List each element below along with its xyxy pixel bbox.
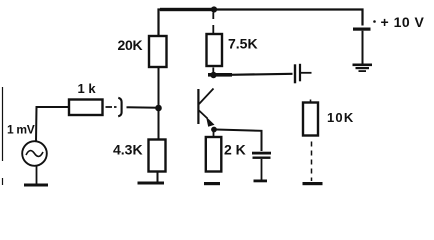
wire left margin scan artifact bbox=[2, 87, 4, 185]
wire 7.5K bottom dash bbox=[212, 68, 214, 73]
wire emitter to bypass cap bbox=[216, 130, 262, 152]
battery plate +10V bbox=[353, 28, 371, 31]
svg-text:+ 10 V: + 10 V bbox=[381, 14, 425, 30]
ground source bbox=[24, 184, 48, 187]
wire rail thick segment bbox=[160, 8, 215, 11]
wire battery to ground bbox=[362, 31, 364, 64]
wire collector output line bbox=[230, 74, 293, 75]
wire top supply rail bbox=[159, 10, 363, 37]
wire emitter to 2K bbox=[213, 132, 215, 138]
capacitor C1 input coupling plate bbox=[118, 98, 121, 117]
wire dashes after 1k bbox=[106, 106, 117, 108]
svg-text:20K: 20K bbox=[118, 37, 143, 53]
svg-text:7.5K: 7.5K bbox=[228, 36, 258, 52]
wire 20K bottom to node bbox=[158, 68, 160, 140]
wire source bottom bbox=[36, 165, 38, 184]
transistor Q1 base bar bbox=[197, 89, 199, 124]
node collector junction blob bbox=[210, 72, 216, 78]
resistor R2 7.5K bbox=[207, 34, 223, 66]
node base divider junction bbox=[155, 105, 162, 112]
wire 10K bottom dashed bbox=[311, 142, 313, 182]
ground 2K bar bbox=[204, 182, 220, 185]
resistor R5 10K bbox=[303, 103, 318, 136]
wire output stub bbox=[301, 72, 312, 74]
ground 10K bbox=[303, 182, 323, 185]
resistor R1 20K bbox=[149, 36, 167, 67]
source V1 1mV bbox=[22, 141, 47, 166]
capacitor C2 output coupling bbox=[294, 64, 296, 83]
transistor Q1 emitter diagonal with arrow bbox=[199, 111, 208, 119]
svg-text:2 K: 2 K bbox=[224, 142, 246, 158]
ground cap tick bbox=[254, 180, 268, 183]
wire source top bbox=[36, 107, 69, 142]
resistor R3 4.3K bbox=[149, 140, 166, 172]
ground supply bbox=[353, 64, 373, 67]
resistor R4 1k bbox=[69, 100, 103, 116]
svg-text:1 mV: 1 mV bbox=[7, 123, 35, 137]
capacitor C3 emitter bypass bbox=[252, 152, 271, 155]
svg-text:1 k: 1 k bbox=[78, 81, 97, 96]
resistor R6 2K bbox=[206, 137, 222, 172]
svg-text:10K: 10K bbox=[327, 110, 354, 125]
transistor Q1 collector diagonal bbox=[199, 89, 214, 105]
wire cap to node bbox=[127, 106, 159, 108]
svg-text:4.3K: 4.3K bbox=[113, 142, 143, 158]
ground 4.3K bbox=[138, 182, 165, 185]
node rail junction dot bbox=[211, 6, 217, 12]
wire 4.3K bottom bbox=[157, 172, 159, 182]
node emitter junction dot bbox=[211, 127, 217, 133]
label +10 V bbox=[373, 20, 376, 23]
wire cap bottom bbox=[261, 159, 263, 180]
wire 7.5K top (dashed scan) bbox=[212, 13, 214, 35]
